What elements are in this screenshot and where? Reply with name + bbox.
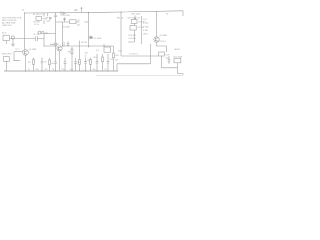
svg-text:C2 .1: C2 .1 [15, 49, 20, 51]
svg-text:OUT: OUT [166, 54, 171, 56]
wire output to jack [177, 68, 183, 76]
wire rail tick R bias [47, 13, 49, 16]
svg-text:VOL 100K: VOL 100K [174, 56, 183, 58]
svg-text:R14 1K: R14 1K [159, 41, 166, 43]
svg-text:2 OUT: 2 OUT [143, 23, 149, 25]
wire vertical x44 [43, 34, 45, 47]
svg-text:10u: 10u [166, 58, 169, 60]
ground bus [4, 70, 118, 72]
svg-text:VR2 100K LIN: VR2 100K LIN [128, 17, 141, 19]
capacitor C4 mid [63, 41, 69, 46]
svg-text:10u: 10u [93, 69, 96, 71]
wire vertical x62.5 [62, 22, 64, 46]
wire +9V rail [25, 11, 184, 13]
svg-text:10K: 10K [36, 69, 40, 71]
svg-text:1K: 1K [52, 69, 55, 71]
svg-text:.047: .047 [44, 69, 48, 71]
svg-text:.1: .1 [82, 69, 84, 71]
svg-text:CAPS 50V: CAPS 50V [2, 24, 12, 27]
svg-text:Q1 5088: Q1 5088 [29, 49, 36, 51]
svg-text:4 SW: 4 SW [143, 30, 148, 32]
svg-text:D1 4148: D1 4148 [94, 38, 101, 40]
svg-text:+9V: +9V [74, 9, 79, 12]
wire jack drop [6, 41, 8, 44]
svg-text:9V: 9V [166, 14, 169, 16]
svg-text:VR1: VR1 [45, 33, 49, 35]
transistor Q2 [57, 44, 65, 71]
svg-text:4u7: 4u7 [115, 60, 118, 62]
resistor R5 [49, 58, 54, 71]
wire B riser [150, 44, 152, 64]
svg-text:R1 1M C1 .1: R1 1M C1 .1 [33, 14, 44, 16]
capacitor C11 [107, 54, 113, 71]
wire rail drop x88 [88, 13, 90, 47]
wire input line y38.5 [10, 38, 36, 40]
wire out line B [117, 63, 151, 65]
svg-text:R3 470K: R3 470K [63, 15, 71, 17]
svg-text:3 GND: 3 GND [143, 26, 149, 28]
transistor Q3 [154, 11, 167, 52]
diode D2 [89, 36, 94, 39]
svg-text:C1 .01: C1 .01 [33, 34, 39, 36]
capacitor C10 [93, 54, 98, 71]
svg-text:1u: 1u [28, 69, 30, 71]
svg-text:IC1: IC1 [96, 50, 99, 52]
svg-text:R6: R6 [68, 52, 70, 54]
resistor R8 [90, 58, 92, 72]
svg-text:C9: C9 [87, 60, 89, 62]
svg-text:R10: R10 [115, 55, 118, 57]
node +9V label [74, 8, 83, 13]
svg-text:LEVEL: LEVEL [174, 49, 180, 51]
svg-text:10K: 10K [85, 52, 89, 54]
pot VR2 cluster [128, 14, 146, 42]
box IC1 cluster [96, 44, 111, 52]
svg-text:22K: 22K [47, 21, 51, 23]
resistor R7 riser [79, 41, 88, 72]
svg-text:R2 10K: R2 10K [34, 21, 41, 23]
resistor R10 [113, 46, 122, 71]
wire x141 vertical [141, 16, 143, 44]
node junction dots [24, 12, 122, 72]
svg-text:IN J1: IN J1 [2, 32, 6, 34]
wire mid link y33.5 [44, 33, 55, 35]
connector J1 input jack [2, 32, 14, 40]
svg-text:SW1 DPDT: SW1 DPDT [2, 53, 13, 55]
svg-text:2: 2 [22, 8, 24, 12]
svg-text:C3: C3 [77, 20, 79, 22]
svg-text:1K: 1K [105, 69, 108, 71]
wire Q1 base step [14, 52, 20, 61]
svg-text:R11 1K: R11 1K [117, 17, 124, 19]
svg-text:1n: 1n [85, 55, 87, 57]
wire left vertical drop [24, 13, 26, 50]
wire right edge stub [182, 11, 184, 16]
transistor Q1 [14, 49, 36, 71]
svg-text:DIST 100K: DIST 100K [131, 14, 141, 16]
switch SW1 lower input [2, 53, 13, 71]
svg-text:R4: R4 [28, 62, 30, 64]
capacitor C13 output [166, 56, 171, 64]
wire signal line y46 [44, 45, 114, 47]
resistor R6 [68, 47, 73, 71]
svg-text:R13 10K: R13 10K [129, 35, 137, 37]
svg-text:R7 470: R7 470 [81, 42, 87, 44]
capacitor C7 [54, 58, 57, 71]
resistor R1 cluster top [33, 13, 51, 26]
svg-text:LED1: LED1 [143, 34, 148, 36]
node bus labels [28, 69, 107, 71]
svg-text:R4 100K: R4 100K [63, 26, 71, 28]
svg-text:R5: R5 [51, 63, 53, 65]
svg-text:C11: C11 [110, 59, 113, 61]
svg-text:C14 47p: C14 47p [129, 38, 136, 40]
trimmer VR1 [38, 31, 48, 35]
wire x121 drop [120, 12, 122, 56]
diode D1 on rail [61, 11, 66, 15]
capacitor C2 cluster [54, 13, 80, 58]
svg-text:C4: C4 [63, 42, 65, 44]
wire output lower [162, 56, 178, 68]
capacitor C3b small [63, 18, 65, 23]
svg-text:470: 470 [70, 69, 73, 71]
svg-text:47p: 47p [77, 24, 80, 26]
svg-text:C10: C10 [93, 57, 96, 59]
box output jack [159, 52, 171, 56]
capacitor C4 input cap [36, 36, 45, 41]
resistor R9b [102, 54, 104, 71]
resistor R4 [28, 58, 34, 72]
svg-text:C8: C8 [77, 62, 79, 64]
capacitor C7b [64, 58, 67, 71]
capacitor C9 [84, 58, 89, 72]
wire out line A [121, 55, 159, 57]
svg-text:22u: 22u [62, 69, 65, 71]
svg-text:TO VOL 3: TO VOL 3 [129, 53, 137, 55]
capacitor C8 [74, 58, 80, 71]
svg-text:1 IN: 1 IN [143, 19, 147, 21]
svg-text:C2 1u: C2 1u [34, 24, 39, 26]
svg-text:Q3 5088: Q3 5088 [159, 35, 166, 37]
wire tick left at y22 [85, 21, 89, 23]
svg-text:C6: C6 [44, 61, 46, 63]
wire faint lower line [96, 74, 183, 76]
ground [11, 39, 15, 47]
node title text block [2, 18, 22, 27]
box volume pot [174, 49, 183, 68]
capacitor C6 [41, 58, 47, 72]
capacitor C5 [50, 43, 59, 46]
